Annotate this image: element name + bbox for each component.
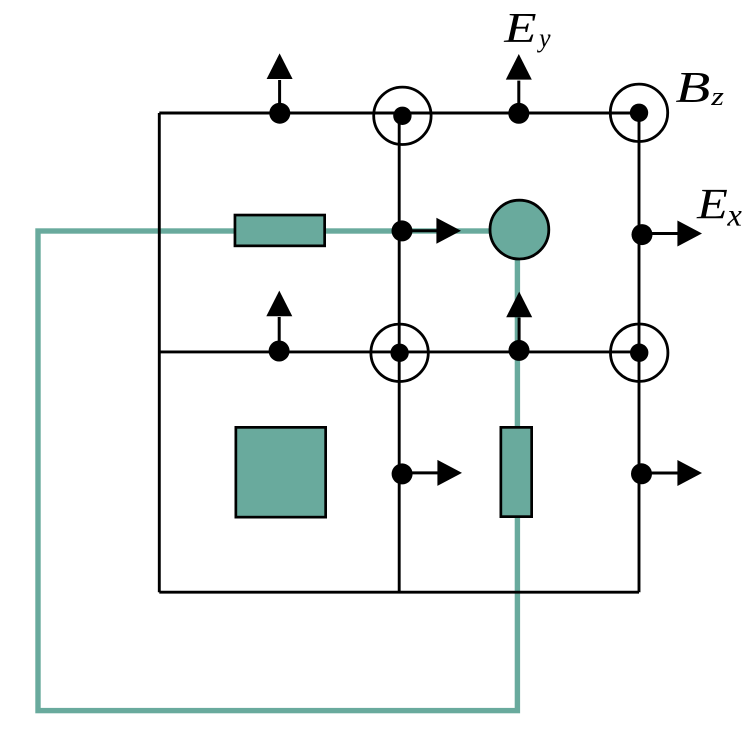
arrow Ey top-right (506, 54, 532, 113)
charge slab horizontal (teal rectangle) (235, 215, 325, 246)
node Bz top-right (labelled Bz, circled dot) (610, 84, 667, 141)
label Ey (504, 14, 551, 53)
wire: grid horizontal top (159, 112, 639, 115)
node Ey dot mid-right (509, 340, 530, 361)
node Ey dot top-left (269, 103, 290, 124)
node Ey dot mid-left (269, 341, 290, 362)
arrow Ey mid-right (506, 292, 532, 351)
arrow Ex row2-middle (402, 460, 462, 486)
label Ex (697, 190, 742, 226)
wire: grid vertical left (158, 113, 161, 592)
node Ex dot row2-middle (392, 463, 413, 484)
wire: grid vertical right (638, 113, 641, 592)
arrow Ex row1-right (642, 221, 702, 247)
node Ex dot row1-right (labelled Ex) (632, 224, 653, 245)
arrow Ey top-left (267, 53, 293, 113)
node Ex dot row1-middle (392, 220, 413, 241)
arrow Ex row2-right (642, 460, 703, 486)
node Bz mid-middle (circled dot) (371, 324, 428, 381)
integration loop (teal rectangle path) (38, 231, 517, 711)
wire: grid vertical middle (398, 113, 401, 592)
charge slab vertical (teal rectangle) (501, 427, 532, 516)
node Bz top-middle (circled dot) (374, 87, 431, 144)
charge disc (teal circle) (490, 200, 549, 259)
label Bz (676, 73, 723, 105)
arrow Ex row1-middle (402, 218, 461, 244)
node Ey dot top-right (labelled Ey) (508, 103, 529, 124)
charge square (teal) (236, 427, 326, 517)
node Bz mid-right (circled dot) (611, 324, 668, 381)
arrow Ey mid-left (266, 291, 292, 351)
wire: grid horizontal middle (159, 350, 639, 353)
node Ex dot row2-right (631, 463, 652, 484)
wire: grid horizontal bottom (159, 591, 639, 594)
